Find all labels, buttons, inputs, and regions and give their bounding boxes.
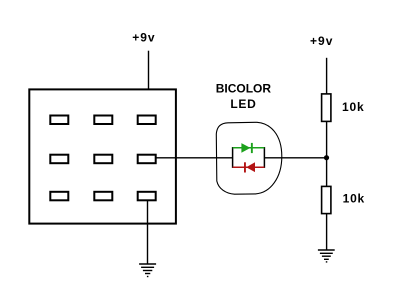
wire from R1 to R2 through node A bbox=[326, 122, 328, 187]
wire from R2 to ground bbox=[326, 214, 328, 250]
pad r1c1 bbox=[50, 116, 68, 125]
svg-text:10k: 10k bbox=[343, 192, 365, 206]
LED left lead bbox=[232, 147, 234, 168]
svg-text:BICOLOR: BICOLOR bbox=[216, 81, 272, 95]
ground (left) bbox=[139, 264, 156, 277]
node A (junction dot) bbox=[324, 155, 329, 160]
pad r2c1 bbox=[50, 155, 68, 164]
svg-text:10k: 10k bbox=[342, 100, 364, 114]
wire from +9v to R1 bbox=[326, 58, 328, 94]
pad r2c2 bbox=[94, 155, 112, 164]
resistor R2 bbox=[322, 186, 331, 213]
pad r3c2 bbox=[94, 192, 112, 201]
IC box (3x3 pad array) bbox=[29, 89, 176, 223]
ground (right) bbox=[318, 250, 335, 262]
LED package outline bbox=[216, 122, 281, 194]
resistor R1 bbox=[322, 94, 331, 122]
pad r3c1 bbox=[50, 192, 68, 201]
pad r2c3 bbox=[138, 155, 156, 164]
green diode D1 bbox=[233, 143, 265, 153]
svg-text:+9v: +9v bbox=[132, 30, 155, 44]
red diode D2 bbox=[233, 162, 265, 172]
pad r1c3 bbox=[138, 116, 156, 125]
LED right lead bbox=[263, 147, 265, 168]
wire from +9v to IC pad bbox=[148, 51, 150, 116]
svg-text:LED: LED bbox=[230, 97, 256, 111]
svg-text:+9v: +9v bbox=[310, 34, 333, 48]
pad r3c3 bbox=[138, 192, 156, 201]
wire from pad r2c3 to LED bbox=[155, 157, 232, 159]
pad r1c2 bbox=[94, 116, 112, 125]
wire from LED to node A bbox=[264, 157, 326, 159]
wire from pad r3c3 to ground bbox=[147, 200, 149, 264]
